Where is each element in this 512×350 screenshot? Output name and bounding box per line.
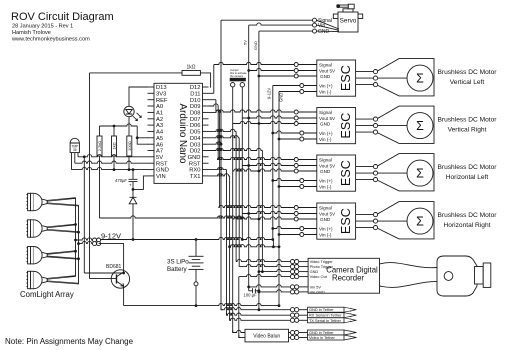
junction jog A5 [136, 136, 139, 139]
wire tether GND in Tether row [221, 308, 290, 310]
svg-text:5V: 5V [156, 155, 163, 161]
wire GND row [72, 167, 148, 169]
wire conn2 riser [241, 87, 243, 240]
wire C2 right [255, 290, 259, 292]
pin stub right RX0 [203, 169, 209, 171]
wire 5V riser [248, 25, 250, 291]
junction ESC3 gnd [258, 170, 261, 173]
wire TX riser [229, 176, 231, 320]
tether pennant GND label [309, 307, 334, 312]
junction cam gnd d02 [261, 270, 264, 273]
svg-text:Servo: Servo [340, 18, 357, 25]
svg-text:ROV Circuit Diagram: ROV Circuit Diagram [11, 11, 114, 23]
ESC3 label GND [320, 169, 331, 174]
junction rail battery [195, 238, 198, 241]
svg-text:Vout 5V: Vout 5V [319, 211, 336, 216]
lamp L3 ComLight [26, 247, 78, 264]
camera label Video Trigger [310, 259, 334, 264]
connector balun Video in Tether b [295, 335, 299, 339]
connector J2 b [97, 242, 101, 246]
wire camera Photo Trigger stub [299, 266, 308, 268]
connector tether TX Serial in Tether a [290, 318, 294, 322]
connector battery [194, 282, 198, 286]
svg-text:1kΩ: 1kΩ [186, 65, 195, 71]
svg-text:A0: A0 [156, 104, 163, 110]
wire C2 left [249, 290, 253, 292]
svg-text:D05: D05 [190, 130, 201, 136]
wire row246 link [230, 245, 279, 247]
wire camera Vin 5V row [249, 285, 291, 287]
svg-text:D09: D09 [190, 104, 201, 110]
wire 912 bus [272, 86, 274, 240]
svg-text:Note: Pin Assignments May Chan: Note: Pin Assignments May Change [5, 337, 134, 346]
wire PT riser [238, 138, 240, 267]
wire LED to R3 col [128, 117, 130, 136]
ESC U5 box [317, 203, 356, 239]
svg-text:Σ: Σ [416, 71, 424, 85]
motor M3 name1 [438, 164, 498, 171]
wire servo gnd row [259, 30, 313, 32]
svg-text:Arduino Nano: Arduino Nano [177, 104, 188, 164]
svg-text:www.techmonkeybusiness.com: www.techmonkeybusiness.com [11, 37, 90, 43]
LED D1 arrows [133, 113, 142, 121]
tether pennant RX box [308, 313, 345, 318]
pin label D09 [190, 104, 201, 110]
ESC2 label Signal [319, 110, 332, 115]
wire 5V row [78, 155, 148, 157]
connector ESC3 signal [294, 158, 298, 162]
wire ESC3 signal row [217, 157, 294, 159]
connector camera Vin GND a [290, 290, 294, 294]
pin stub right D05 [203, 130, 209, 132]
camera lens barrel2 [483, 263, 491, 287]
junction R4 gnd [128, 168, 131, 171]
connector tether GND in Tether b [295, 308, 299, 312]
svg-text:Horizontal Right: Horizontal Right [444, 222, 491, 229]
svg-text:Signal: Signal [319, 157, 332, 162]
pin label A7 [156, 149, 163, 155]
wire tx bend [230, 318, 231, 320]
junction ESC2 vout [247, 117, 250, 120]
junction ESC1 gnd [258, 75, 261, 78]
junction gnd rail bus [278, 304, 281, 307]
pin label D04 [190, 136, 201, 142]
junction ESC1 vout [247, 69, 250, 72]
motor M4 name1 [438, 212, 498, 219]
svg-text:Brushless DC Motor: Brushless DC Motor [438, 164, 498, 171]
svg-text:D13: D13 [156, 85, 167, 91]
svg-text:100 µF: 100 µF [244, 293, 258, 298]
wire sensor drop 84 [83, 157, 85, 273]
svg-text:the camera: the camera [230, 74, 244, 78]
wire vout riser [238, 277, 240, 338]
camera cable top [380, 263, 438, 268]
wire ESC4 stubs [298, 208, 317, 235]
pin stub left D13 [148, 86, 155, 88]
wire GND rail [124, 303, 279, 305]
connector tether TX Serial in Tether b [295, 318, 299, 322]
resistor R2 box [97, 136, 102, 156]
motor M2 bell [378, 106, 434, 143]
servo pin label Vin [318, 23, 325, 29]
U1 label Arduino Nano [177, 104, 188, 164]
connector motor3 c [373, 178, 377, 182]
connector ESC4 vin+ [300, 227, 304, 231]
wire bus2 to conn [79, 241, 93, 243]
TMP36 text line1 [71, 145, 78, 149]
wire camera GND row [259, 269, 291, 271]
ESC U4 box [317, 155, 356, 191]
svg-text:GND: GND [188, 155, 201, 161]
pin label RST [189, 161, 201, 167]
connector camera Vin 5V b [295, 285, 299, 289]
TMP36 lead mid [74, 153, 76, 164]
wire ESC2 vin+ row [273, 131, 300, 133]
wire camera Video Out row [239, 274, 291, 276]
connector camera Vin GND b [295, 290, 299, 294]
transistor Q1 emitter [117, 281, 124, 286]
capacitor C2 plates [253, 288, 256, 293]
svg-text:Battery: Battery [167, 266, 188, 273]
tether pennant GND tail [344, 307, 357, 312]
pin label A6 [156, 142, 163, 148]
svg-text:GND: GND [320, 169, 331, 174]
camera title line1 [326, 266, 378, 275]
svg-text:GND: GND [320, 121, 331, 126]
resistor R1 1k box [182, 71, 200, 76]
wire ESC4 vin+ row [273, 226, 300, 228]
subtitle date [12, 24, 73, 30]
ESC1 label Vout5V [319, 68, 336, 73]
svg-text:GND in Tether: GND in Tether [309, 307, 334, 312]
pin label GND [188, 155, 201, 161]
wire TX1 row [209, 174, 230, 176]
junction row246 railjog [272, 245, 275, 248]
wire ESC2 vin- row [279, 138, 300, 140]
label 5V riser [243, 40, 248, 45]
pin label D05 [190, 130, 201, 136]
wire camera Video Out stub [299, 276, 308, 278]
svg-text:GND: GND [318, 29, 330, 35]
camera recorder box [308, 258, 379, 293]
svg-text:Vout 5V: Vout 5V [319, 163, 336, 168]
wire emitter down [123, 286, 125, 305]
connector motor2 b [373, 124, 377, 128]
lamp L4 ComLight [26, 271, 78, 288]
pin label GND [156, 168, 169, 174]
connector ESC4 vout [294, 212, 298, 216]
svg-text:+: + [129, 183, 132, 188]
svg-text:Vin (+): Vin (+) [319, 226, 333, 231]
wire bus1 to conn [76, 238, 93, 240]
junction diode gnd [132, 168, 135, 171]
wire D05 row [209, 129, 237, 131]
motor M4 circle [407, 208, 433, 234]
wire ESC1 vout row [249, 68, 295, 70]
svg-text:Horizontal Left: Horizontal Left [446, 174, 489, 181]
junction ESC4 vin+ [271, 227, 274, 230]
ESC3 rotated label [339, 160, 353, 186]
connector ESC1 vout [294, 69, 298, 73]
svg-text:Vin (+): Vin (+) [319, 131, 333, 136]
pin label A0 [156, 104, 163, 110]
wire camera Photo Trigger row [239, 264, 290, 266]
pin stub left RST [148, 162, 155, 164]
motor M3 circle [407, 160, 433, 186]
wire ESC4 signal row [219, 205, 294, 207]
wire lamp bus1 [75, 198, 77, 276]
pin label VIN [156, 174, 166, 180]
svg-text:Hamish Trolove: Hamish Trolove [12, 30, 51, 36]
wire ESC2 vout row [242, 116, 294, 118]
wire battery top [195, 240, 197, 257]
svg-text:Signal: Signal [319, 62, 332, 67]
pin label A3 [156, 123, 163, 129]
connector ESC4 gnd [294, 217, 298, 221]
ESC1 rotated label [339, 65, 353, 91]
wire collector riser [99, 244, 124, 272]
wire ESC3 signal jog [209, 104, 219, 106]
svg-text:RST: RST [156, 161, 168, 167]
wire tether TX Serial in Tether stub [299, 319, 308, 321]
balun pennant Video tail [344, 335, 357, 340]
R4 value [127, 141, 132, 151]
sensor TMP36 body [70, 138, 79, 152]
junction ESC2 vin+ [271, 132, 274, 135]
lamp L1 ComLight [26, 193, 78, 210]
connector camera Photo Trigger b [295, 265, 299, 269]
wire balun stub Video in Tether [299, 337, 308, 339]
svg-text:A3: A3 [156, 123, 163, 129]
ESC2 label Vin+ [319, 131, 333, 136]
wire tether TX Serial in Tether row [230, 318, 291, 320]
camera title line2 [332, 274, 364, 283]
pin stub left A0 [148, 105, 155, 107]
connector motor4 c [373, 226, 377, 230]
connector ESC2 vout [294, 116, 298, 120]
ESC4 label Vout5V [319, 211, 336, 216]
connector motor2 c [373, 130, 377, 134]
tether pennant TX tail [344, 318, 357, 323]
junction gnd battery [195, 304, 198, 307]
junction tether gnd [258, 308, 261, 311]
wire RX0 row [209, 167, 227, 169]
svg-text:Vin (-): Vin (-) [319, 89, 332, 94]
camera body [437, 256, 477, 296]
connector tether GND in Tether a [290, 308, 294, 312]
B1 label line1 [167, 259, 189, 266]
wire row218 [100, 216, 243, 218]
wire ESC2 signal jog [209, 99, 216, 101]
junction bus1 tap [74, 239, 77, 242]
connector ESC2 vin+ [300, 131, 304, 135]
wire ESC3 stubs [298, 160, 317, 187]
transistor Q1 circle [111, 270, 129, 288]
wire ESC3 vin- row [279, 186, 300, 188]
label GND bus [278, 93, 283, 102]
camera label Vin 5V [310, 284, 322, 289]
wire camera Video Trigger row [236, 259, 290, 261]
svg-text:Brushless DC Motor: Brushless DC Motor [438, 69, 498, 76]
svg-text:RX0: RX0 [189, 168, 200, 174]
balun pennant GND box [308, 330, 345, 335]
pin label D06 [190, 123, 201, 129]
svg-text:D11: D11 [190, 91, 200, 97]
connector camera Video Trigger b [295, 260, 299, 264]
wire camera Video Trigger stub [299, 261, 308, 263]
connector ESC2 gnd [294, 122, 298, 126]
wire gnd bus [278, 92, 280, 306]
svg-text:D06: D06 [190, 123, 201, 129]
svg-text:A2: A2 [156, 117, 163, 123]
wire ESC4 vout row [242, 211, 294, 213]
R1 value 1k [186, 65, 195, 71]
svg-text:3S LiPo: 3S LiPo [167, 259, 189, 266]
junction VIN tap [132, 188, 135, 191]
wire R4 bottom col [128, 156, 130, 170]
pin label A2 [156, 117, 163, 123]
label GND riser [253, 41, 258, 50]
wire camera Vin GND stub [299, 291, 308, 293]
connector motor2 a [373, 117, 377, 121]
junction rail 912bus [271, 238, 274, 241]
connector balun Video in Tether a [290, 335, 294, 339]
wire D02 riser [261, 151, 263, 272]
connector camera GND b [295, 270, 299, 274]
ESC4 label GND [320, 217, 331, 222]
pin stub right D07 [203, 118, 209, 120]
connector ESC1 signal [294, 63, 298, 67]
svg-text:Video Out: Video Out [310, 274, 328, 279]
svg-text:100Ω: 100Ω [127, 141, 132, 151]
servo pin label GND [318, 29, 330, 35]
svg-text:GND: GND [320, 74, 331, 79]
jumper text line2 [230, 71, 247, 75]
connector motor4 a [373, 213, 377, 217]
pin stub right D11 [203, 92, 209, 94]
wire servo leads [317, 20, 340, 31]
svg-text:A6: A6 [156, 142, 163, 148]
wire ESC4 vin- row [279, 234, 300, 236]
svg-text:GND: GND [320, 217, 331, 222]
junction ESC2 vin- [278, 138, 281, 141]
wire ESC1 signal row [214, 62, 294, 64]
connector ESC3 vin- [300, 185, 304, 189]
wire R3 bottom col [113, 156, 115, 170]
pin label A4 [156, 130, 164, 136]
wire cap to tap [132, 182, 134, 198]
wire R1 left lead [90, 72, 183, 74]
transistor Q1 collector [117, 272, 124, 277]
pin label 3V3 [156, 91, 166, 97]
wire rx bend [227, 313, 229, 315]
wire ESC1 signal jog v [213, 65, 215, 94]
wire servo signal riser [220, 20, 222, 310]
connector ESC3 vin+ [300, 179, 304, 183]
video balun box [245, 329, 289, 342]
LED D1 circle [124, 106, 134, 116]
wire resistor top bus [100, 124, 138, 126]
ESC3 label Vin+ [319, 178, 333, 183]
resistor R3 box [112, 136, 117, 156]
connector servo vin [313, 23, 317, 27]
author name [12, 30, 51, 36]
pin label RST [156, 161, 168, 167]
svg-text:Vin (-): Vin (-) [319, 184, 332, 189]
wire D13 to LED [129, 87, 148, 106]
svg-text:A7: A7 [156, 149, 163, 155]
svg-text:D10: D10 [190, 98, 201, 104]
motor M3 name2 [446, 174, 489, 181]
junction vin5v [247, 286, 250, 289]
servo M5 body [333, 4, 362, 32]
svg-text:D04: D04 [190, 136, 201, 142]
svg-text:5V: 5V [243, 40, 248, 45]
wire bus jog to A5/A6 [137, 126, 148, 144]
connector motor3 a [373, 165, 377, 169]
wire rail jog down [272, 240, 274, 247]
svg-text:Brushless DC Motor: Brushless DC Motor [438, 212, 498, 219]
connector motor1 b [373, 76, 377, 80]
wire camera GND stub [299, 271, 308, 273]
wire servo vin row [249, 23, 313, 25]
junction lamp2 bus2 [77, 231, 80, 234]
svg-text:Vin GND: Vin GND [310, 289, 325, 294]
motor M2 sigma [416, 119, 424, 133]
connector ESC4 vin- [300, 233, 304, 237]
wire base [90, 278, 117, 280]
ESC U2 box [317, 60, 356, 96]
junction ESC4 vout [247, 212, 250, 215]
pin stub right GND [203, 156, 209, 158]
wire R2 bottom col [99, 156, 101, 218]
connector ESC2 vin- [300, 137, 304, 141]
pin stub left A6 [148, 143, 155, 145]
lamp L2 ComLight [26, 220, 78, 237]
wire D03 servo link [209, 142, 222, 144]
ESC3 label Vout5V [319, 163, 336, 168]
svg-text:Video in Tether: Video in Tether [309, 335, 336, 340]
title text [11, 11, 114, 23]
pin label RX0 [189, 168, 200, 174]
svg-text:Vertical Left: Vertical Left [450, 79, 485, 86]
motor M2 shaft wire [378, 125, 408, 127]
svg-text:Brushless DC Motor: Brushless DC Motor [438, 117, 498, 124]
pin stub left VIN [148, 175, 155, 177]
wire tether GND in Tether stub [299, 309, 308, 311]
camera label Video Out [310, 274, 328, 279]
wire ESC2 signal jog v [215, 100, 217, 112]
ComLight Array label [20, 290, 74, 299]
pin stub left A5 [148, 137, 155, 139]
svg-text:RST: RST [189, 161, 201, 167]
connector camera Photo Trigger a [290, 265, 294, 269]
connector J2 a [93, 242, 97, 246]
connector ESC2 signal [294, 110, 298, 114]
svg-text:D08: D08 [190, 111, 201, 117]
label 9-12V [101, 232, 121, 241]
pin label A5 [156, 136, 163, 142]
wire ESC1 signal jog [209, 92, 214, 94]
svg-text:Vin (-): Vin (-) [319, 137, 332, 142]
Q1 label BD681 [106, 264, 122, 270]
TMP36 lead left [71, 153, 73, 170]
connector camera Vin 5V a [290, 285, 294, 289]
junction lamp2 bus1 [74, 223, 77, 226]
wire battery bottom [195, 269, 197, 281]
wire balun in1 [233, 330, 245, 332]
tether pennant GND box [308, 307, 345, 312]
